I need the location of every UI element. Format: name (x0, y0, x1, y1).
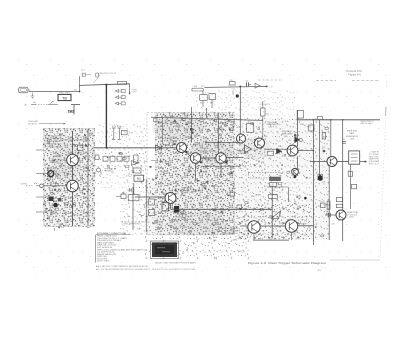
wire top bus A (80, 84, 130, 86)
label free run lockout (347, 212, 359, 219)
transistor Q15 (237, 134, 246, 143)
shaded halftone region right block (235, 118, 331, 240)
wire vertical x240 (239, 86, 241, 135)
svg-text:LEVEL: LEVEL (21, 184, 28, 186)
transistor Q85s (292, 168, 299, 175)
label source follower (165, 138, 177, 142)
svg-text:FOR DETAILS: FOR DETAILS (45, 145, 63, 148)
wire vertical x133 (132, 187, 134, 230)
connector J1 trigger input (19, 87, 31, 93)
svg-text:DLY'D TRIG: DLY'D TRIG (97, 261, 110, 263)
box pair top (270, 177, 281, 186)
svg-text:Q105: Q105 (349, 217, 354, 219)
coupling components x100-145 (112, 126, 133, 140)
wire vertical x162 (162, 108, 206, 144)
svg-text:Q25: Q25 (236, 155, 240, 157)
waveform photo inset box (151, 241, 179, 258)
wire trigger source (39, 123, 66, 125)
svg-text:R33: R33 (61, 216, 64, 218)
wire left block column (72, 131, 74, 226)
label monostable multivibrator (224, 227, 241, 235)
small cap box x308 (309, 125, 315, 131)
label -12V (331, 224, 336, 226)
box B13 (128, 195, 139, 201)
cap components left of Q14 (127, 183, 134, 194)
label trigger source (28, 121, 39, 125)
label tunnel diode mid (200, 148, 209, 152)
dashed outline central block (147, 112, 234, 234)
wire B top bus right (205, 85, 274, 88)
svg-text:Circuits 470: Circuits 470 (346, 70, 363, 73)
transistor Q115 (248, 221, 260, 233)
svg-text:1k: 1k (85, 165, 87, 167)
transistor Q74 (216, 153, 226, 163)
svg-text:R41: R41 (50, 213, 53, 215)
small box right (327, 201, 330, 209)
svg-text:+15 V: +15 V (255, 195, 263, 197)
left block edge stubs (36, 150, 48, 212)
svg-text:R124: R124 (88, 133, 93, 135)
svg-text:R15: R15 (230, 80, 233, 82)
shaded halftone region central block (146, 112, 235, 235)
svg-text:FIG 4-9: FIG 4-9 (369, 164, 379, 166)
note text block left (45, 136, 63, 149)
wire vertical x330 (329, 120, 331, 240)
wire central top bus (151, 117, 263, 120)
svg-text:AS-4 (A) 100 COMPONENTS SHOWN: AS-4 (A) 100 COMPONENTS SHOWN IN BLUE (96, 265, 149, 268)
svg-text:R33: R33 (57, 191, 60, 193)
svg-text:Figure 4-6: Figure 4-6 (348, 74, 362, 77)
svg-text:Q175: Q175 (181, 195, 186, 197)
box near comparator (247, 123, 254, 132)
test point TP4 (192, 86, 206, 91)
label fast run gate generator (346, 131, 359, 141)
wire vertical x272 (271, 187, 273, 239)
wire vertical above Q64 (191, 107, 193, 143)
transistor Q25 (255, 138, 265, 148)
small box left edge central (154, 119, 194, 134)
select-to note (361, 121, 375, 125)
off-sheet arrow 1 (115, 90, 125, 93)
svg-text:47: 47 (52, 179, 54, 181)
svg-text:47: 47 (82, 166, 84, 168)
cap into base (325, 211, 336, 218)
scan noise upper band (195, 90, 295, 118)
wire vertical above Q74 (217, 113, 219, 153)
label TB2 dark (68, 109, 75, 113)
attenuator input row (25, 102, 59, 107)
wire G between Q64 Q74 (201, 157, 216, 159)
svg-text:TB: TB (62, 96, 67, 100)
transistor Q55 (287, 145, 298, 156)
small circle node (97, 168, 101, 172)
wire comparator to amp (265, 148, 291, 155)
emitter dots (185, 151, 227, 164)
svg-text:FOLLOWER: FOLLOWER (165, 141, 177, 143)
svg-text:SOURCE: SOURCE (28, 124, 38, 126)
wire vertical x319 (319, 120, 321, 176)
level input (21, 183, 67, 188)
label TD on bus (318, 116, 323, 119)
label trigger generator (267, 122, 280, 129)
box TD top (134, 175, 144, 181)
dense label cluster rows central (149, 113, 250, 235)
svg-text:4.7k: 4.7k (129, 133, 132, 135)
node junction trunk top (105, 84, 107, 86)
resistor R91 vertical (321, 130, 326, 139)
dark marks bottom left block (49, 197, 62, 208)
diode D45 on wire F (156, 145, 162, 151)
svg-text:3k: 3k (321, 130, 323, 132)
svg-text:AMPL DRIVES THE: AMPL DRIVES THE (45, 137, 63, 140)
label under photo box (155, 261, 196, 264)
svg-text:GENERATOR: GENERATOR (346, 135, 359, 138)
wire elbow arrow down (129, 84, 138, 95)
tunnel diode box TD (58, 92, 71, 100)
dashed outline left block (44, 129, 93, 227)
left block bottom labels (48, 208, 70, 227)
svg-text:& MULT. SEE TEXT: & MULT. SEE TEXT (45, 144, 63, 146)
svg-text:220: 220 (61, 227, 64, 229)
svg-text:+15V: +15V (192, 86, 197, 88)
wire below gate box (350, 164, 352, 209)
left block component chains (45, 133, 95, 231)
svg-text:GATE: GATE (349, 132, 355, 135)
dark dot component (232, 88, 239, 97)
svg-text:47k 100: 47k 100 (112, 126, 122, 128)
annotation max input (94, 72, 117, 83)
svg-text:C77: C77 (92, 213, 95, 215)
capacitor C16 (245, 80, 251, 86)
svg-text:R33: R33 (64, 213, 67, 215)
svg-text:LEVEL CENTERING: LEVEL CENTERING (123, 224, 142, 226)
dotted page edge right (380, 81, 386, 258)
diode between monostable (271, 211, 280, 219)
faint page noise (16, 60, 390, 280)
svg-text:Q65: Q65 (284, 136, 288, 138)
comparator triangle (236, 145, 252, 157)
wire I gate bus (297, 119, 380, 121)
resistor boxes left of Q115 (230, 192, 248, 226)
capacitor C91 (342, 139, 346, 143)
small box B20 (318, 174, 323, 180)
resistor stack x338 (336, 198, 342, 208)
transistor Q54 (177, 143, 187, 153)
svg-text:+ MAX INPUT VOLTS: + MAX INPUT VOLTS (98, 72, 117, 75)
node junction at 79,91 (79, 91, 81, 93)
fold dashed rule (258, 79, 380, 82)
transistor Q95 (327, 157, 337, 167)
resistor R61 vertical (259, 101, 271, 138)
wire main trunk vertical (105, 85, 107, 149)
trunk elbow to wire F (95, 155, 138, 173)
footnote line (96, 265, 197, 271)
scan blotches (51, 115, 316, 236)
wire r into Q135 (135, 196, 165, 198)
off-sheet arrow 3 (115, 102, 125, 105)
wire J (310, 160, 367, 162)
svg-text:R33: R33 (58, 163, 61, 165)
shaded halftone region below central (145, 235, 250, 260)
svg-text:DIODE: DIODE (200, 150, 208, 152)
resistor box on bus (229, 80, 235, 85)
dark dot below Q85s (294, 175, 297, 178)
wire vertical to TP1 (78, 76, 80, 91)
external connection notes (95, 232, 148, 263)
label trigger amplifier (282, 131, 294, 138)
svg-text:ALL VOLTAGES MEASURED WITH NO: ALL VOLTAGES MEASURED WITH NO SIGNAL INP… (96, 268, 197, 271)
amplifier triangle (294, 137, 302, 144)
test point TP1 (81, 70, 91, 76)
wire vertical x342 (342, 120, 344, 241)
wire Q64 Q74 emitters down (196, 142, 222, 180)
wire K (201, 165, 240, 167)
resistor R small (352, 184, 357, 188)
svg-text:R72: R72 (88, 170, 91, 172)
variable resistor dark ring (47, 170, 55, 177)
svg-text:2.2k: 2.2k (232, 88, 235, 90)
off-sheet arrow 2 (115, 96, 125, 99)
input box left of Q135 (116, 194, 126, 199)
svg-text:10k: 10k (57, 221, 60, 223)
dashed level line (121, 222, 149, 226)
transistor Q64 (190, 153, 200, 163)
svg-text:R41: R41 (49, 183, 52, 185)
wire left block column 2 (60, 129, 88, 226)
label high freq sync (181, 188, 194, 197)
dashed adj box (248, 172, 281, 178)
resistor boxes row (255, 185, 307, 202)
page number (318, 270, 322, 272)
small box 1.5k (320, 201, 325, 208)
resistor R110 (78, 145, 84, 151)
svg-text:FREE RUN: FREE RUN (347, 131, 358, 133)
small boxes x150 (149, 199, 155, 216)
svg-text:PULL: PULL (132, 92, 137, 94)
svg-text:RESET: RESET (300, 224, 309, 226)
svg-text:4.7k: 4.7k (348, 170, 351, 172)
svg-text:R154: R154 (65, 225, 69, 227)
small marks 4.7k (348, 170, 353, 176)
svg-text:TRIG OUT: TRIG OUT (104, 171, 113, 173)
svg-text:C9: C9 (53, 208, 55, 210)
svg-text:R66: R66 (48, 216, 51, 218)
shaded halftone region gap strip (95, 150, 147, 235)
dark tunnel diode box (162, 203, 185, 219)
test point TP2 (96, 73, 99, 77)
gate output box (349, 151, 360, 164)
svg-text:220: 220 (83, 156, 86, 158)
svg-text:PRE TRIG: PRE TRIG (59, 92, 71, 94)
wire Q55 output (298, 150, 314, 152)
resistor R85 (209, 94, 216, 108)
svg-text:TD: TD (137, 177, 141, 181)
svg-text:1.4k: 1.4k (270, 185, 273, 187)
transistor Q34 (67, 180, 79, 192)
header text top right (346, 70, 363, 77)
svg-text:TRIGGER TD AMPL: TRIGGER TD AMPL (45, 140, 63, 143)
transistor Q125 (285, 220, 297, 232)
svg-text:R90: R90 (60, 224, 63, 226)
wire vertical x146 (145, 179, 147, 232)
dark blob component (318, 175, 323, 181)
wire N (260, 224, 313, 226)
caption figure title (248, 261, 327, 265)
scan noise between top (96, 124, 146, 150)
delay line box (117, 82, 126, 85)
svg-text:R85: R85 (210, 102, 213, 104)
transistor Q105 (336, 210, 346, 220)
wire Q54 down to Q64 (185, 152, 191, 157)
wire M (171, 204, 273, 210)
svg-text:C05: C05 (326, 211, 329, 213)
svg-text:+15 VOLTS: +15 VOLTS (259, 104, 271, 106)
wire F to source follower (94, 147, 177, 149)
svg-text:C77: C77 (53, 156, 56, 158)
svg-text:DIODE: DIODE (176, 216, 184, 218)
wire vertical x297 (296, 110, 298, 176)
svg-text:Q115, Q125: Q115, Q125 (224, 233, 236, 235)
svg-text:C16: C16 (245, 80, 248, 82)
switch contact symbol (297, 110, 303, 120)
wire O (253, 232, 292, 240)
svg-text:DELAY LINE TRIGGER PICKOFF A: DELAY LINE TRIGGER PICKOFF AMPL (155, 261, 196, 264)
transistor Q135 (165, 193, 176, 204)
wire vertical x313 (312, 120, 314, 245)
shaded halftone region left amplifier block (43, 128, 95, 227)
svg-text:47: 47 (84, 197, 86, 199)
diode CR中 (131, 161, 141, 173)
transistor Q24 (67, 154, 79, 166)
wire row D continue (71, 105, 80, 115)
svg-text:1.5k: 1.5k (320, 201, 323, 203)
ground below connector (31, 93, 34, 99)
wire input to node (29, 89, 80, 91)
resistor R84 (200, 91, 208, 107)
svg-text:Figure 4-6. Main Trigger Sche: Figure 4-6. Main Trigger Schematic Diagr… (248, 261, 327, 265)
svg-text:R45: R45 (266, 114, 269, 116)
see waveform note (369, 151, 380, 166)
svg-text:IN TD MODE THIS: IN TD MODE THIS (45, 136, 63, 138)
svg-text:1B2: 1B2 (68, 109, 75, 113)
wire top k (206, 142, 240, 144)
svg-text:10k: 10k (82, 203, 85, 205)
faint rule bottom right (330, 259, 380, 261)
wire H Q74 to comparator (226, 157, 243, 159)
svg-text:Q45: Q45 (269, 126, 273, 128)
svg-text:MATCH GATE: MATCH GATE (361, 122, 374, 125)
diode on bus (255, 83, 260, 88)
svg-text:R72: R72 (92, 153, 95, 155)
